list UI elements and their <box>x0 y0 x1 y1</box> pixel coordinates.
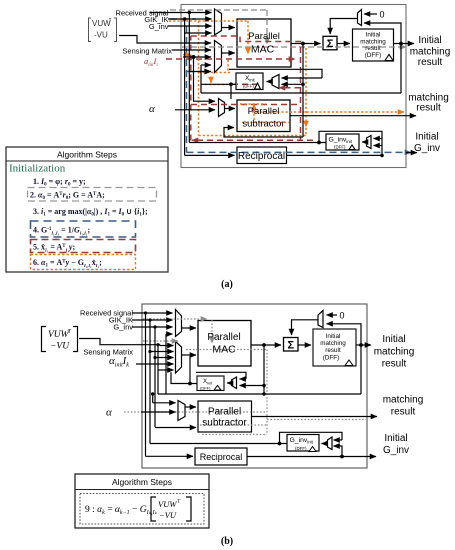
adder sigma box (b) <box>284 338 299 352</box>
mux M1 (b) <box>176 310 182 337</box>
svg-text:subtractor: subtractor <box>242 118 284 129</box>
text X_init (b) <box>200 378 213 391</box>
svg-text:subtractor: subtractor <box>202 418 247 429</box>
output label matching result (a) <box>408 93 449 114</box>
label matrix VUW -VU (b) <box>42 327 78 352</box>
svg-text:G_inv: G_inv <box>383 445 409 456</box>
block Parallel subtractor (b) <box>198 401 252 432</box>
text G_inv_init (a) <box>329 137 353 150</box>
svg-text:result: result <box>391 406 416 417</box>
algorithm header (b) <box>112 477 172 487</box>
algorithm box frame (b) <box>75 474 209 528</box>
svg-text:α: α <box>106 407 112 419</box>
step 2 gray dashed box <box>28 188 157 202</box>
svg-text:result: result <box>416 102 441 113</box>
algorithm box frame (a) <box>6 147 168 272</box>
text Initial matching result DFF (a) <box>360 32 386 60</box>
text Initial matching result DFF (b) <box>320 333 346 362</box>
clock triangle G_inv (b) <box>309 447 316 452</box>
wire zero const into M0 (a) <box>364 13 377 15</box>
step 9 matrix <box>151 497 191 521</box>
svg-text:Initial: Initial <box>326 333 341 340</box>
svg-text:matching: matching <box>320 340 346 347</box>
text Parallel subtractor (b) <box>202 407 247 429</box>
svg-text:MAC: MAC <box>251 44 275 56</box>
register G_inv_init DFF (a) <box>326 134 359 150</box>
text Parallel subtractor (a) <box>242 106 284 130</box>
wire subtractor out to matching result (a) <box>290 115 416 117</box>
svg-text:Algorithm Steps: Algorithm Steps <box>57 150 117 160</box>
svg-text:Reciprocal: Reciprocal <box>200 452 243 462</box>
mux MG g_inv select (a) <box>367 136 372 149</box>
svg-text:Initial: Initial <box>418 35 441 46</box>
label alpha_init I_k (b) <box>109 355 129 369</box>
algorithm header (a) <box>57 150 117 160</box>
mux M3 subtractor input (b) <box>178 401 185 421</box>
svg-text:(DFF): (DFF) <box>200 386 211 391</box>
svg-text:−VU: −VU <box>50 342 70 352</box>
svg-text:(DFF): (DFF) <box>243 84 255 89</box>
label zero const (b) <box>340 311 345 321</box>
text Reciprocal (b) <box>200 452 243 462</box>
svg-text:matching: matching <box>383 395 424 406</box>
wire IMR out and feedback (b) <box>158 324 371 394</box>
block Reciprocal (a) <box>237 147 287 164</box>
text Initialization <box>9 163 66 175</box>
svg-text:(DFF): (DFF) <box>365 52 381 59</box>
dark red dashed net G_inv_init (a) <box>166 36 313 141</box>
svg-text:T: T <box>109 18 112 24</box>
mux MG g_inv select (b) <box>328 437 333 450</box>
svg-text:(DFF): (DFF) <box>295 446 307 451</box>
wire MAC out to sigma (a) <box>291 43 321 45</box>
step 6 orange dotted box <box>31 255 136 270</box>
step 6 <box>33 258 102 269</box>
wire DFF output and feedback (a) <box>201 23 414 93</box>
step 4 blue dashed box <box>31 221 136 237</box>
label alpha (b) <box>106 407 112 419</box>
svg-text:(DFF): (DFF) <box>334 144 346 149</box>
mux M0 zero-select (b) <box>318 311 323 328</box>
step 2 <box>30 191 105 202</box>
register Initial matching result DFF (a) <box>353 29 394 61</box>
mux M3 subtractor input (a) <box>219 99 225 117</box>
svg-text:Initial: Initial <box>382 334 405 345</box>
wire matching result arrow (b) <box>251 416 377 418</box>
wire M0 to sigma top (b) <box>292 320 319 335</box>
text X_init (a) <box>243 75 256 89</box>
text Reciprocal (a) <box>238 151 285 162</box>
svg-text:result: result <box>325 347 341 354</box>
text Parallel MAC (a) <box>248 31 280 56</box>
block Reciprocal (b) <box>195 448 247 465</box>
mux M2 (b) <box>176 342 182 374</box>
wire M1 to MAC (a) <box>222 27 235 29</box>
clock triangle IMR (a) <box>385 55 393 61</box>
blue dashed net G_inv (a) <box>170 19 411 152</box>
caption (a) <box>221 279 233 290</box>
label Sensing Matrix (a) <box>122 47 172 56</box>
block Parallel MAC (a) <box>237 19 291 67</box>
wire sigma to DFF (a) <box>337 43 350 45</box>
svg-text:G_inv: G_inv <box>149 22 169 31</box>
svg-text:Initial: Initial <box>384 433 407 444</box>
wire sensing matrix bracket elbow (a) <box>119 36 211 66</box>
label a_init I_i darkred (a) <box>144 56 158 68</box>
mux MX x_init select (a) <box>272 75 279 89</box>
svg-text:0: 0 <box>380 10 385 20</box>
step 5 <box>33 243 75 253</box>
wire M0 to sigma top (a) <box>330 19 357 35</box>
label alpha (a) <box>149 103 155 115</box>
wire reciprocal in and out (a) <box>185 13 382 156</box>
svg-text:Initialization: Initialization <box>9 163 66 175</box>
gray dashed net G_IK (a) top <box>170 10 406 47</box>
register Initial matching result DFF (b) <box>313 329 356 366</box>
svg-text:−VU: −VU <box>159 510 177 520</box>
svg-text:Σ: Σ <box>287 340 294 352</box>
svg-text:result: result <box>418 57 443 68</box>
clock triangle IMR (b) <box>345 360 353 366</box>
output label Initial G_inv (b) <box>383 433 409 456</box>
svg-text:VUW: VUW <box>158 499 177 509</box>
svg-text:Parallel: Parallel <box>248 31 280 42</box>
svg-text:1. I0 = φ; r0 = y;: 1. I0 = φ; r0 = y; <box>33 177 86 188</box>
svg-text:Initial: Initial <box>415 132 438 143</box>
step 4 <box>33 226 91 236</box>
svg-text:(DFF): (DFF) <box>323 355 339 362</box>
svg-text:0: 0 <box>340 311 345 321</box>
svg-text:Parallel: Parallel <box>248 106 280 117</box>
mux M0 zero-select (a) <box>358 10 362 26</box>
svg-text:Initial: Initial <box>366 32 381 39</box>
wire reciprocal in out (b) <box>146 446 377 457</box>
clock triangle X_init (a) <box>255 83 261 89</box>
svg-text:(a): (a) <box>221 279 233 290</box>
outer enclosure box (a) <box>181 5 406 168</box>
svg-text:Parallel: Parallel <box>207 332 240 343</box>
wire received signal into M1 (b) <box>132 313 173 334</box>
label Sensing Matrix (b) <box>83 348 133 357</box>
label G_inv (b) <box>113 323 133 332</box>
wire MAC out vertical feedback (a) <box>224 44 303 138</box>
svg-text:6. α1 = ATy − GI₁,I₁x̂I₁;: 6. α1 = ATy − GI₁,I₁x̂I₁; <box>33 258 102 269</box>
text Parallel MAC (b) <box>207 332 240 356</box>
svg-text:matching: matching <box>374 347 415 358</box>
register G_inv_init DFF (b) <box>287 435 319 452</box>
text sigma (b) <box>287 340 294 352</box>
wire received signal into M1 (a) <box>150 13 212 34</box>
caption (b) <box>221 536 233 547</box>
svg-text:result: result <box>365 45 381 52</box>
output label Initial matching result (b) <box>374 334 415 370</box>
wire sigma to IMR DFF (b) <box>298 344 311 346</box>
output label Initial G_inv (a) <box>414 132 440 154</box>
label GIK_IK (a) <box>144 15 168 24</box>
clock triangle X_init (b) <box>214 386 221 391</box>
wire alpha into M3 (a) <box>175 57 235 110</box>
orange dotted net alpha (a) <box>169 21 404 136</box>
register X_init DFF (b) <box>197 376 224 391</box>
wire M1 to MAC (b) <box>182 327 197 329</box>
wire x_init enclosure (b) <box>171 356 246 384</box>
junction dots (a) <box>183 11 403 157</box>
svg-text:G_inv: G_inv <box>113 323 133 332</box>
svg-text:Reciprocal: Reciprocal <box>238 151 285 162</box>
wire x_init enclosure (a) <box>201 65 322 99</box>
svg-text:matching: matching <box>410 46 451 57</box>
block Parallel MAC (b) <box>198 321 251 367</box>
register X_init DFF (a) <box>236 73 263 90</box>
text sigma (a) <box>327 38 334 50</box>
wire M3 and subtractor (b) <box>141 394 196 428</box>
svg-text:-VU: -VU <box>94 31 108 40</box>
label Received signal (a) <box>116 9 169 18</box>
mux M2 (a) <box>215 41 222 73</box>
feedback columns (b) <box>146 313 167 456</box>
outer enclosure box (b) <box>142 304 367 468</box>
step 5 darkred dashed box <box>31 240 136 253</box>
adder sigma box (a) <box>323 36 337 50</box>
svg-text:Algorithm Steps: Algorithm Steps <box>112 477 172 487</box>
junction dots (b) <box>144 311 363 458</box>
svg-text:result: result <box>382 359 407 370</box>
step 9 dotted box <box>80 494 204 525</box>
svg-text:3. i1 = arg max(|α0|) , I1 = I: 3. i1 = arg max(|α0|) , I1 = I0 ∪ {i1}; <box>33 207 148 218</box>
wire MAC out vertical to MX (b) <box>240 345 265 394</box>
gray dotted nets (b) <box>124 319 366 435</box>
label GIK_IK (b) <box>109 316 133 325</box>
text G_inv_init (b) <box>290 437 314 451</box>
mux MX x_init select (b) <box>232 377 237 389</box>
wire zero const into M0 (b) <box>327 314 338 316</box>
label Received signal (b) <box>80 309 133 318</box>
label G_inv (a) <box>149 22 169 31</box>
svg-text:Parallel: Parallel <box>208 407 241 418</box>
svg-text:Sensing Matrix: Sensing Matrix <box>122 47 172 56</box>
step 9 formula <box>85 505 158 516</box>
output label Initial matching result (a) <box>410 35 451 68</box>
svg-text:VUW: VUW <box>48 330 70 340</box>
wire g_inv enclosure (a) <box>189 131 417 155</box>
wire M2 to MAC (a) <box>222 52 235 54</box>
step 3 <box>33 207 148 218</box>
step 1 <box>33 177 86 188</box>
mux M1 (a) <box>215 9 222 35</box>
svg-text:G_inv: G_inv <box>414 143 440 154</box>
svg-text:α: α <box>149 103 155 115</box>
svg-text:Σ: Σ <box>327 38 334 50</box>
wire sensing matrix elbow (b) <box>79 339 196 371</box>
wire MAC out to sigma (b) <box>251 344 281 346</box>
svg-text:MAC: MAC <box>212 344 236 356</box>
svg-text:5. x̂I₁ = ATI₁y;: 5. x̂I₁ = ATI₁y; <box>33 243 75 253</box>
label matrix VUW -VU (a) <box>89 18 117 42</box>
label zero const (a) <box>380 10 385 20</box>
wire g_inv enclosure (b) <box>150 432 342 443</box>
svg-text:(b): (b) <box>221 536 233 547</box>
output label matching result (b) <box>383 395 424 418</box>
clock triangle G_inv (a) <box>349 145 355 150</box>
block Parallel subtractor (a) <box>237 100 290 132</box>
